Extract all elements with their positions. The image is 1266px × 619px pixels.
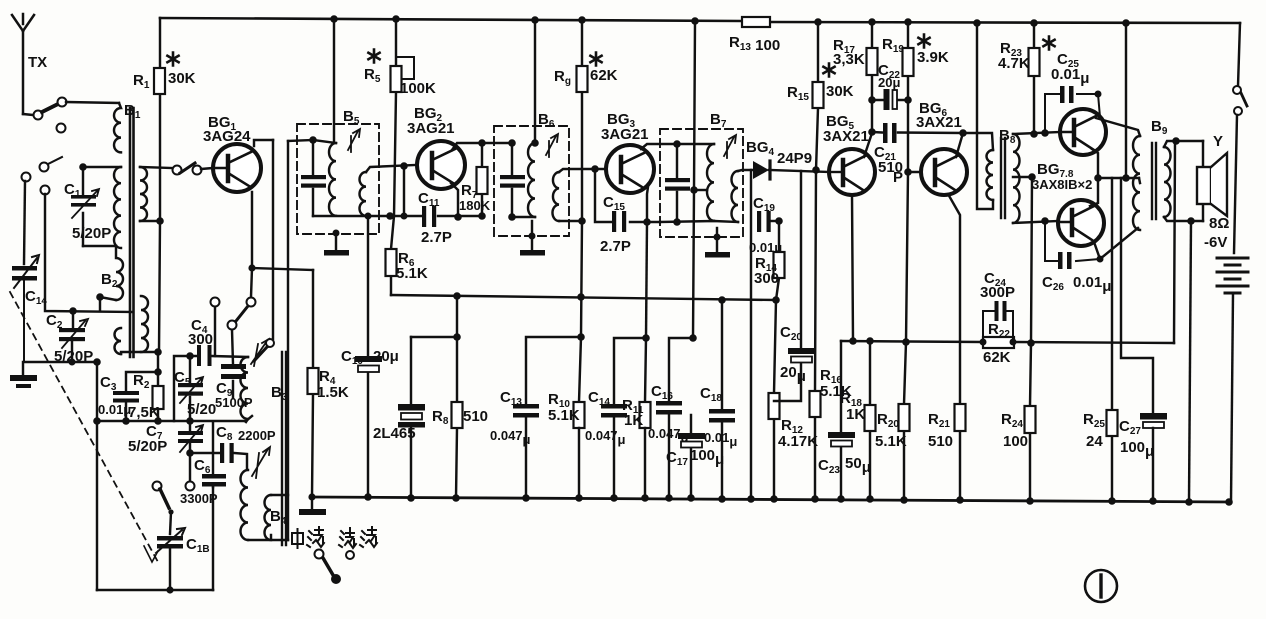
switch contact above C4: [211, 298, 220, 357]
node B7 cap bottom: [673, 218, 681, 226]
capacitor B6 internal: [500, 175, 525, 188]
coil B6 secondary: [552, 172, 559, 221]
transformer B2 secondary (right of core): [141, 296, 148, 352]
resistor R24: [1025, 406, 1036, 433]
capacitor B7 internal: [665, 178, 690, 191]
switch contact emitter: [247, 298, 256, 307]
wire B1 tap to C1: [83, 166, 121, 168]
capacitor C9: [221, 330, 246, 398]
node link C16: [689, 334, 697, 342]
node BG2 base drop: [400, 162, 408, 170]
capacitor C14 (variable): [12, 255, 39, 362]
battery -6V: [1217, 258, 1248, 502]
wire B6 bottom: [512, 216, 535, 218]
ground B6: [520, 221, 545, 256]
transformer B9 primary: [1133, 136, 1140, 230]
node C2 bottom on ground wire: [69, 359, 76, 366]
capacitor C1B (variable): [144, 528, 185, 562]
trimmer arrow B6: [546, 134, 558, 157]
transformer B4 osc winding: [241, 470, 248, 540]
node B2 bottom: [96, 293, 104, 301]
node B6 cap top: [508, 139, 516, 147]
svg-text:3AX21: 3AX21: [823, 128, 869, 145]
switch contact collector to B3: [254, 339, 274, 361]
capacitor C5 (variable): [178, 356, 203, 421]
wire rail to B8 primary bottom: [977, 23, 993, 209]
node B2 sec bottom: [154, 348, 162, 356]
detector load column x751: [750, 170, 752, 498]
resistor R20: [899, 404, 910, 431]
coil B7 primary: [707, 144, 714, 221]
trimmer arrow B5: [348, 129, 360, 152]
circled numeral 1: [1085, 570, 1117, 602]
resistor R1: [154, 18, 165, 221]
svg-text:180K: 180K: [459, 198, 491, 213]
wire feedback to speaker top: [1174, 141, 1175, 343]
svg-text:5.1K: 5.1K: [548, 407, 580, 424]
resistor R12: [769, 300, 780, 499]
node C18 junction: [718, 296, 726, 304]
node x97 y421: [93, 417, 101, 425]
wire B6 secondary top to BG3 base: [559, 169, 607, 172]
wire secondary top to diode: [738, 170, 753, 171]
wire C16 link: [669, 338, 693, 400]
svg-text:3AG24: 3AG24: [203, 128, 251, 145]
node BG2 emitter: [454, 213, 462, 221]
node R1 bottom junction: [156, 217, 164, 225]
wire C14b R11 link: [614, 338, 646, 403]
capacitor C15: [595, 169, 660, 232]
wire BG5 collector: [864, 133, 872, 157]
ground rail bottom: [312, 497, 1231, 502]
speaker Y: [1197, 141, 1227, 221]
transformer B2 primary upper: [116, 246, 123, 300]
wire R1 column down to R2: [158, 221, 160, 421]
resistor R10: [574, 402, 585, 498]
wire x97 down: [96, 362, 98, 590]
ganged capacitor dashed link: [10, 292, 158, 562]
svg-text:510: 510: [463, 408, 488, 425]
capacitor C1 (variable 5/20P): [71, 167, 99, 246]
wire B5 top link: [313, 140, 336, 143]
resistor R8: [452, 337, 463, 498]
node C1 top: [79, 163, 87, 171]
capacitor C26 loop: [1045, 221, 1104, 269]
wire B9 sec bottom to speaker: [1164, 217, 1203, 221]
ground B7: [705, 228, 730, 258]
svg-text:300: 300: [188, 331, 213, 348]
node BG8 base: [1041, 217, 1049, 225]
band switch in BG1 base: [173, 163, 202, 175]
switch contacts left of C1: [22, 157, 63, 195]
svg-text:100K: 100K: [400, 80, 436, 97]
node R8 riser top: [453, 292, 461, 300]
transformer B3 upper winding: [241, 357, 248, 422]
antenna switch S1: [23, 98, 67, 133]
node BG5 collector: [868, 128, 876, 136]
wire BG3 emitter: [647, 187, 648, 222]
transformer B2 primary lower: [115, 328, 122, 354]
wire tap stub: [694, 189, 707, 191]
node emitters: [1094, 174, 1102, 182]
svg-text:300P: 300P: [980, 284, 1015, 301]
wire C7 to switch contact: [189, 453, 191, 481]
resistor Rg: [577, 20, 588, 337]
label zhongbo MW: [292, 527, 324, 548]
transformer B4 feedback winding: [265, 495, 271, 540]
trimmer arrow B3: [251, 339, 269, 366]
node Rg junction: [578, 217, 586, 225]
capacitor B5 internal: [301, 175, 326, 188]
resistor R22 with C24: [980, 301, 1017, 348]
transformer B9 secondary: [1164, 147, 1171, 217]
svg-text:2.7P: 2.7P: [600, 238, 631, 255]
transformer B9 core: [1152, 143, 1156, 219]
svg-text:300: 300: [754, 270, 779, 287]
svg-text:3.9K: 3.9K: [917, 49, 949, 66]
wire B4 bottoms: [248, 535, 288, 540]
resistor R6: [386, 216, 397, 295]
wire B8 center tap: [1013, 176, 1032, 178]
svg-text:3AG21: 3AG21: [601, 126, 649, 143]
wire C14 bottom to ground: [24, 361, 97, 363]
wire emitter to R4: [252, 268, 313, 270]
svg-text:2200P: 2200P: [238, 428, 276, 443]
node diode line R15: [812, 166, 820, 174]
node C7 bottom: [186, 449, 194, 457]
wire B6 secondary bottom to Rg column: [559, 220, 582, 222]
wire BG7 emitter: [1092, 149, 1098, 178]
transformer B1 primary winding upper: [114, 103, 121, 152]
svg-text:2L465: 2L465: [373, 425, 416, 442]
wire bottom loop: [97, 589, 213, 592]
switch contact to C9: [228, 306, 249, 330]
capacitor C18: [709, 300, 735, 499]
wire contact to C2 line: [45, 194, 132, 312]
node junction x97: [93, 358, 101, 366]
wire B2 secondary bottom to R2 column: [121, 352, 158, 354]
filter 2L465: [398, 337, 425, 498]
node BG6 collector: [959, 129, 967, 137]
rail node dots: [330, 15, 1130, 27]
svg-text:3,3K: 3,3K: [833, 51, 865, 68]
capacitor C21: [872, 123, 963, 143]
wire switch to C1B: [170, 512, 171, 534]
asterisk Rg: [590, 53, 601, 66]
node link R8: [453, 333, 461, 341]
transformer B8 secondary: [1013, 134, 1020, 223]
capacitor C13: [513, 404, 539, 498]
oscillator band switch: [153, 482, 195, 515]
wire C27 drop: [1121, 178, 1153, 413]
svg-text:5/20P: 5/20P: [128, 438, 167, 455]
wire AGC bus y296: [391, 295, 775, 300]
wire B4 top from feedback column: [271, 494, 288, 496]
node C2 top: [69, 307, 77, 315]
wire rail supply to emitter bus: [1125, 23, 1127, 178]
node C5 top: [186, 352, 194, 360]
resistor R13 in rail: [742, 17, 770, 27]
wire C1B bottom loop: [169, 549, 171, 590]
wire BG2 emitter: [451, 183, 458, 217]
svg-text:24: 24: [1086, 433, 1103, 450]
resistor R2: [153, 386, 164, 409]
asterisk R5: [368, 50, 379, 63]
transformer B8 primary: [987, 150, 993, 200]
wire B5 bottom line: [313, 215, 366, 217]
svg-text:5.1K: 5.1K: [875, 433, 907, 450]
transformer B1 core: [130, 108, 134, 357]
capacitor C8: [220, 443, 247, 469]
wire collector to B8 primary: [963, 133, 993, 150]
wire B1 secondary bottom to R1 column: [140, 220, 160, 222]
IF can B5 dashed box: [297, 124, 379, 234]
wire antenna to B1 top: [66, 102, 119, 103]
node R2 bottom: [154, 417, 162, 425]
wire rail to B7 tap: [693, 21, 695, 338]
resistor R7: [477, 143, 488, 216]
resistor R19: [903, 22, 914, 172]
transistor BG3: [606, 145, 654, 193]
capacitor C20 electrolytic: [774, 171, 815, 401]
node emitter junction: [248, 264, 255, 271]
wire C1 bottom to B2 top: [83, 245, 116, 247]
band switch MW SW: [315, 550, 355, 585]
capacitor C23 electrolytic: [828, 341, 855, 499]
node link R11: [642, 334, 650, 342]
capacitor C22 electrolytic: [868, 89, 912, 110]
wire tap down to R24: [1030, 177, 1032, 501]
wire C7 to C8: [190, 452, 221, 454]
wire B2 bottom node: [100, 297, 116, 311]
wire BG2 collector: [452, 143, 512, 150]
node R7 bottom: [478, 212, 486, 220]
capacitor C14b: [601, 404, 627, 498]
node R6 top: [386, 212, 394, 220]
ground left: [10, 362, 37, 388]
wire BG8 collector to B9 bottom: [1094, 228, 1138, 259]
asterisk R1: [167, 53, 178, 66]
wire BG6 base: [908, 171, 922, 173]
coil B5 primary: [329, 143, 336, 216]
wire B5 secondary to BG2 base: [366, 165, 415, 172]
wire B8 sec top to BG7 base: [1013, 132, 1060, 134]
svg-text:30K: 30K: [826, 83, 854, 100]
svg-text:0.01μ: 0.01μ: [98, 402, 131, 417]
trimmer arrow B4: [252, 447, 270, 478]
IF can B7 dashed box: [660, 129, 743, 237]
wire C3 R2 top link: [126, 372, 158, 421]
svg-text:8Ω: 8Ω: [1209, 215, 1229, 232]
svg-text:-6V: -6V: [1204, 234, 1227, 251]
capacitor C19: [757, 211, 779, 232]
capacitor C27 electrolytic: [1140, 413, 1167, 501]
node AGC bus right end: [772, 296, 780, 304]
resistor R18: [865, 337, 876, 499]
ground B5: [324, 230, 349, 256]
node supply drop: [1122, 174, 1130, 182]
transistor BG8: [1058, 200, 1104, 246]
node B9 tap: [1139, 178, 1140, 183]
B7 internal cap column: [676, 144, 678, 222]
bottom rail node dots: [364, 493, 1233, 506]
node B7 cap top: [673, 140, 681, 148]
node R2 top: [154, 368, 162, 376]
wire IF line y216: [366, 215, 482, 217]
transformer B1 primary winding lower: [114, 167, 121, 248]
svg-text:3300P: 3300P: [180, 491, 218, 506]
capacitor C4: [197, 345, 212, 366]
asterisk R23: [1043, 37, 1054, 50]
node C1B bottom: [166, 586, 173, 593]
svg-text:510: 510: [928, 433, 953, 450]
resistor R14: [774, 221, 785, 300]
B5 internal cap column: [312, 140, 314, 216]
label duanbo SW: [339, 527, 377, 548]
svg-text:100: 100: [1003, 433, 1028, 450]
wire collector column x273: [272, 140, 274, 339]
svg-text:3AX21: 3AX21: [916, 114, 962, 131]
transformer B3 B4 core: [282, 352, 286, 545]
wire 2L465 R8 link: [411, 296, 457, 337]
node B6 cap bottom: [508, 213, 516, 221]
resistor R17: [867, 22, 878, 132]
resistor R16: [810, 170, 821, 499]
node BG6 base: [904, 168, 912, 176]
resistor R21: [955, 404, 966, 431]
power switch: [1233, 23, 1247, 253]
wire C4 line: [174, 356, 248, 421]
svg-text:7,5K: 7,5K: [128, 404, 160, 421]
node C19 right: [775, 217, 783, 225]
svg-text:30K: 30K: [168, 70, 196, 87]
B6 internal cap column: [511, 143, 513, 217]
node R24 feedback junction: [1027, 339, 1035, 347]
node B5 cap top: [309, 136, 317, 144]
node R7 top: [478, 139, 486, 147]
wire speaker bottom down: [1189, 221, 1191, 502]
svg-text:4.17K: 4.17K: [778, 433, 818, 450]
IF can B6 dashed box: [494, 126, 569, 236]
node R20 top: [902, 338, 910, 346]
wire BG6 collector: [956, 133, 963, 157]
node C15 drop: [591, 165, 599, 173]
resistor R25: [1107, 410, 1118, 436]
svg-text:3AX8IB×2: 3AX8IB×2: [1032, 177, 1092, 192]
capacitor C11: [422, 206, 436, 227]
capacitor C6: [202, 422, 226, 487]
svg-text:62K: 62K: [983, 349, 1011, 366]
wire BG8 emitter: [1090, 178, 1098, 206]
svg-text:1K: 1K: [846, 406, 865, 423]
resistor R4: [308, 270, 319, 497]
wire switch to BG1 base: [201, 168, 213, 169]
wire BG3 collector: [641, 144, 714, 149]
wire main tuning bus y421: [95, 416, 252, 421]
svg-text:P: P: [893, 169, 903, 186]
svg-text:62K: 62K: [590, 67, 618, 84]
capacitor C7 (variable 5/20P): [178, 421, 203, 453]
wire emitter down x647: [646, 222, 647, 338]
svg-text:Y: Y: [1213, 133, 1223, 150]
coil B7 secondary: [732, 171, 738, 222]
node BG2 base bottom: [401, 213, 408, 220]
coil B5 secondary: [360, 172, 367, 216]
node C5C7 top: [186, 417, 194, 425]
wire C13 R10 link: [526, 337, 581, 403]
resistor R23: [1029, 23, 1040, 138]
wire rail to B5 coil: [333, 19, 335, 143]
capacitor C2 (variable 5/20P): [59, 311, 88, 362]
wire BG7 collector to B9 top: [1096, 118, 1140, 136]
svg-text:4.7K: 4.7K: [998, 55, 1030, 72]
svg-text:24P9: 24P9: [777, 150, 812, 167]
node speaker top: [1172, 137, 1180, 145]
wire C6 column: [212, 487, 214, 590]
node center tap: [1028, 173, 1036, 181]
wire B9 sec top to speaker: [1164, 141, 1203, 147]
wire emitter bus: [1098, 177, 1139, 179]
transformer B8 core: [1001, 138, 1005, 218]
svg-text:5/20P: 5/20P: [72, 225, 111, 242]
svg-text:1K: 1K: [624, 412, 643, 429]
resistor R15: [813, 22, 824, 170]
wire B1 secondary top to switch: [140, 167, 172, 168]
svg-text:TX: TX: [28, 54, 47, 71]
wire BG1 collector top: [254, 140, 273, 146]
capacitor C3: [113, 391, 139, 403]
wire B7 bottom: [660, 221, 738, 222]
feedback bias line: [841, 341, 1174, 343]
node BG3 emitter: [643, 218, 651, 226]
node speaker bottom: [1187, 217, 1195, 225]
transistor BG1: [213, 144, 261, 192]
asterisk R15: [823, 64, 834, 77]
asterisk R19: [918, 35, 929, 48]
wire B8 sec bottom to BG8 base: [1013, 221, 1058, 223]
transistor BG2: [417, 141, 465, 189]
capacitor C10: [355, 213, 382, 498]
node link R10: [577, 333, 585, 341]
wire BG6 emitter to R21: [948, 194, 960, 500]
capacitor C17 electrolytic: [678, 415, 705, 498]
node BG7 base: [1041, 129, 1049, 137]
wire contact to C14: [24, 181, 25, 264]
node Rg AGC crossing: [577, 293, 585, 301]
coil B6 primary: [528, 143, 535, 217]
transistor BG7: [1060, 109, 1106, 155]
svg-text:20μ: 20μ: [878, 75, 900, 90]
node B7 tap: [690, 186, 698, 194]
svg-text:5/20: 5/20: [187, 401, 216, 418]
svg-text:5.1K: 5.1K: [396, 265, 428, 282]
wire R20 column: [904, 172, 908, 500]
transistor BG6: [921, 149, 967, 195]
ground at rail left end: [299, 493, 326, 515]
resistor R5: [391, 19, 415, 216]
capacitor C16: [656, 401, 682, 498]
trimmer arrow B7: [724, 135, 736, 158]
svg-text:2.7P: 2.7P: [421, 229, 452, 246]
transformer B1 secondary: [140, 167, 147, 221]
wire base drop: [403, 166, 405, 216]
svg-text:1.5K: 1.5K: [317, 384, 349, 401]
antenna TX: [12, 14, 34, 114]
wire BG5 emitter: [852, 195, 853, 341]
resistor R11: [640, 402, 651, 498]
svg-text:3AG21: 3AG21: [407, 120, 455, 137]
top supply rail: [160, 18, 1240, 23]
